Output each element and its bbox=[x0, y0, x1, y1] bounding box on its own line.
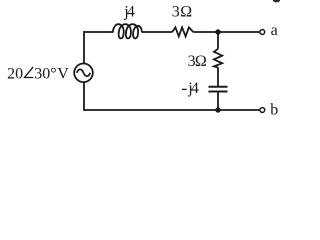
label -j4 bbox=[182, 88, 187, 90]
angle symbol bbox=[25, 67, 34, 78]
cropped mark top right bbox=[273, 0, 280, 2]
svg-text:b: b bbox=[270, 102, 278, 119]
wire node to vertical resistor bbox=[217, 31, 219, 49]
junction node top bbox=[215, 29, 220, 34]
terminal b open circle bbox=[260, 108, 265, 113]
terminal a open circle bbox=[260, 30, 265, 35]
svg-text:30°: 30° bbox=[34, 65, 56, 82]
resistor 3ohm horizontal zigzag bbox=[172, 27, 193, 36]
wire vertical resistor to capacitor bbox=[217, 67, 219, 86]
wire top rail resistor to terminal a bbox=[193, 31, 260, 33]
wire top rail between inductor and resistor bbox=[142, 31, 173, 33]
svg-text:4: 4 bbox=[127, 3, 135, 20]
wire bottom rail to terminal b bbox=[218, 109, 260, 111]
wire capacitor to bottom node bbox=[217, 92, 219, 110]
voltage source sine wave bbox=[77, 69, 90, 76]
wire top rail left segment bbox=[84, 31, 113, 33]
svg-text:a: a bbox=[271, 22, 278, 39]
svg-text:Ω: Ω bbox=[195, 53, 207, 70]
inductor j4 coil bbox=[113, 24, 142, 38]
svg-text:20: 20 bbox=[7, 65, 23, 82]
svg-text:4: 4 bbox=[191, 80, 199, 97]
svg-text:Ω: Ω bbox=[180, 4, 192, 21]
resistor 3ohm vertical zigzag bbox=[214, 49, 222, 68]
svg-text:3: 3 bbox=[172, 4, 180, 21]
wire source bottom lead bbox=[83, 82, 85, 111]
wire bottom rail left segment bbox=[84, 109, 218, 111]
wire source top lead bbox=[83, 31, 85, 63]
voltage source V1 circle bbox=[74, 64, 93, 83]
capacitor -j4 plates bbox=[209, 87, 228, 92]
junction node bottom bbox=[215, 107, 220, 112]
svg-text:V: V bbox=[57, 65, 69, 82]
